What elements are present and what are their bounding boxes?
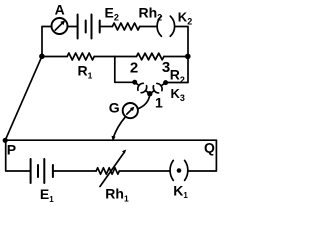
wire: K1 to bottom-right corner and up to Q [188, 140, 217, 171]
key K3 right of node 1 (plug key arcs, rotated) [147, 79, 168, 97]
galvanometer U:G circle [123, 103, 138, 118]
svg-text:G: G [109, 99, 120, 115]
battery E1 (two cells) [31, 159, 53, 183]
node P dot [3, 138, 8, 143]
wire: galvanometer to P-Q line with arrow [114, 117, 125, 137]
wire: top-left corner from ammeter down to junction [42, 27, 52, 57]
wire: E1 to Rh1 [53, 170, 96, 172]
wire: ammeter to battery E2 [68, 26, 78, 28]
key K1 (plug key arcs with dot) [170, 160, 188, 180]
arrowhead onto PQ line [112, 136, 116, 142]
node A: left key dot [132, 80, 137, 85]
svg-text:K1: K1 [173, 182, 188, 200]
wire: P down and along bottom to battery E1 [6, 140, 31, 171]
node: left junction dot [39, 54, 45, 60]
ammeter U:A circle [52, 18, 68, 34]
wire: P-Q line [5, 139, 216, 141]
resistor R1 zigzag [67, 53, 94, 60]
key K2 (plug key arcs) [157, 16, 175, 36]
svg-text:K2: K2 [178, 10, 192, 27]
wire: battery E2 to Rh2 [100, 26, 113, 28]
rheostat Rh1 zigzag [96, 168, 119, 174]
wire: R1 to bridge resistor, with branch tap [94, 56, 136, 58]
svg-text:E2: E2 [105, 5, 119, 23]
wire: diagonal from junction to P [5, 56, 42, 140]
rheostat Rh1 arrow [100, 150, 126, 187]
battery E2 (two cells) [78, 15, 100, 39]
ammeter needle arrow [55, 20, 65, 30]
svg-text:1: 1 [155, 95, 163, 111]
wire: branch from node 2 side down to left key dot [115, 57, 135, 83]
resistor between nodes 2 and 3 [137, 53, 164, 60]
svg-text:Q: Q [204, 139, 215, 155]
svg-text:P: P [7, 141, 16, 157]
wire: Rh2 to key K2 [140, 26, 158, 28]
node 1 dot [147, 91, 152, 96]
rheostat Rh2 zigzag [112, 23, 139, 30]
wire: junction to R1 [42, 56, 67, 58]
svg-text:R2: R2 [170, 67, 185, 85]
wire: K2 to top-right corner, down right side [166, 27, 188, 83]
svg-text:Rh1: Rh1 [105, 185, 129, 203]
node B: right key dot [163, 80, 168, 85]
svg-text:K3: K3 [171, 86, 185, 103]
galvanometer needle arrow [127, 107, 135, 115]
wire: Rh1 to key K1 [119, 170, 169, 172]
key left of node 1 (plug key arcs, rotated) [132, 79, 152, 98]
svg-text:2: 2 [130, 59, 138, 76]
wire: node 3 to right junction [164, 56, 188, 58]
svg-text:E1: E1 [40, 186, 54, 204]
node: right junction dot on vertical [185, 54, 191, 60]
svg-text:A: A [55, 2, 65, 18]
svg-text:R1: R1 [78, 63, 93, 81]
wire: node 1 to galvanometer [138, 95, 150, 109]
